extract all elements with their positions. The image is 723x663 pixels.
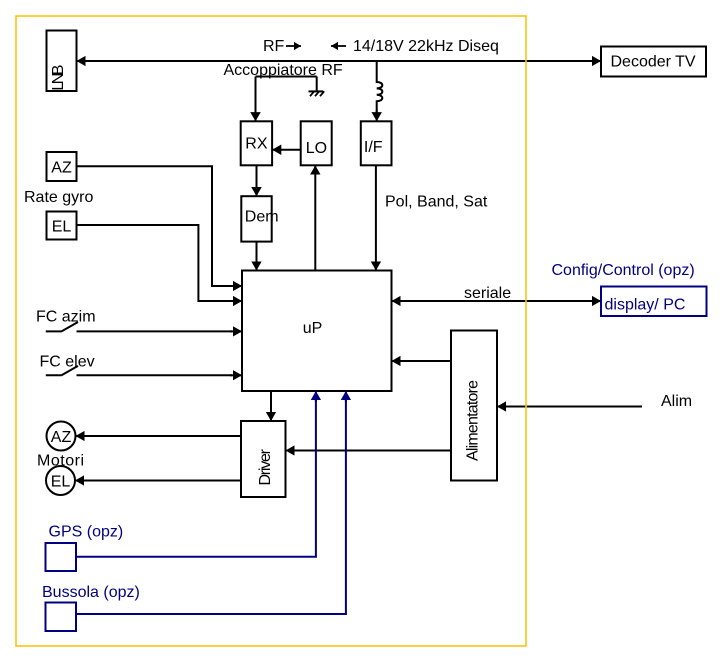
block RX: [241, 121, 272, 165]
wire uP to Driver: [270, 391, 272, 421]
wire Alimentatore to uP: [392, 360, 452, 362]
ground: [309, 77, 325, 97]
wire I/F to uP: [375, 165, 377, 270]
svg-text:display/ PC: display/ PC: [605, 297, 686, 314]
enclosure boundary: [16, 16, 526, 646]
svg-text:LO: LO: [306, 140, 327, 157]
svg-text:AZ: AZ: [51, 159, 72, 176]
wire Driver to motor AZ: [76, 435, 242, 437]
wire FC elev to uP: [230, 374, 242, 376]
arrow Diseq direction left: [331, 45, 346, 47]
svg-text:GPS (opz): GPS (opz): [49, 524, 124, 541]
motor AZ: [47, 422, 76, 451]
wire coupler tap to RX: [256, 77, 317, 113]
wire GPS to uP: [76, 400, 316, 557]
inductor choke on I/F feed: [377, 61, 383, 112]
svg-text:RF: RF: [263, 38, 285, 55]
svg-text:uP: uP: [303, 320, 323, 337]
block AZ rate gyro: [47, 152, 77, 181]
block uP: [242, 271, 392, 392]
svg-text:Pol, Band, Sat: Pol, Band, Sat: [385, 194, 488, 211]
svg-text:14/18V 22kHz Diseq: 14/18V 22kHz Diseq: [353, 38, 499, 55]
block Decoder TV: [601, 47, 706, 77]
block GPS: [46, 543, 77, 571]
wire RX to Dem: [256, 165, 258, 196]
svg-text:Alimentatore: Alimentatore: [465, 380, 482, 461]
arrow RF direction right: [286, 45, 301, 47]
wire FC azim to uP: [230, 330, 242, 332]
wire uP to LO: [314, 165, 316, 270]
wire LO to RX: [272, 149, 301, 151]
switch FC elev: [46, 366, 232, 375]
svg-text:AZ: AZ: [51, 429, 72, 446]
svg-text:EL: EL: [51, 473, 71, 490]
svg-text:seriale: seriale: [464, 285, 511, 302]
block LNB: [47, 31, 77, 92]
svg-text:I/F: I/F: [364, 139, 383, 156]
block LO: [301, 121, 332, 165]
block display/ PC: [601, 287, 707, 317]
svg-text:Dem: Dem: [245, 209, 279, 226]
block Driver: [241, 421, 286, 497]
svg-text:Alim: Alim: [661, 393, 692, 410]
wire RF bus LNB to Decoder TV: [77, 60, 602, 62]
wire AZ gyro to uP: [77, 166, 233, 286]
block Dem: [241, 196, 278, 241]
svg-text:RX: RX: [245, 136, 268, 153]
wire EL gyro to uP: [77, 225, 233, 301]
svg-text:EL: EL: [52, 218, 72, 235]
svg-text:Driver: Driver: [257, 448, 274, 485]
switch FC azim: [46, 322, 232, 331]
svg-text:Decoder TV: Decoder TV: [611, 54, 696, 71]
svg-text:FC azim: FC azim: [36, 309, 96, 326]
block Alimentatore: [451, 331, 497, 481]
block EL rate gyro: [47, 212, 77, 240]
motor EL: [46, 466, 75, 495]
svg-text:Config/Control (opz): Config/Control (opz): [552, 262, 695, 279]
block Bussola: [46, 603, 77, 632]
svg-text:Bussola (opz): Bussola (opz): [42, 584, 140, 601]
svg-text:FC elev: FC elev: [40, 354, 95, 371]
wire Bussola to uP: [76, 400, 346, 614]
wire Driver to motor EL: [75, 480, 241, 482]
wire Alim input: [497, 406, 642, 408]
wire Alimentatore to Driver: [286, 450, 452, 452]
svg-text:LNB: LNB: [50, 65, 67, 91]
block I/F: [361, 121, 392, 165]
svg-text:Rate gyro: Rate gyro: [24, 189, 93, 206]
wire seriale uP to display PC: [392, 300, 602, 302]
wire Dem to uP: [256, 242, 258, 271]
